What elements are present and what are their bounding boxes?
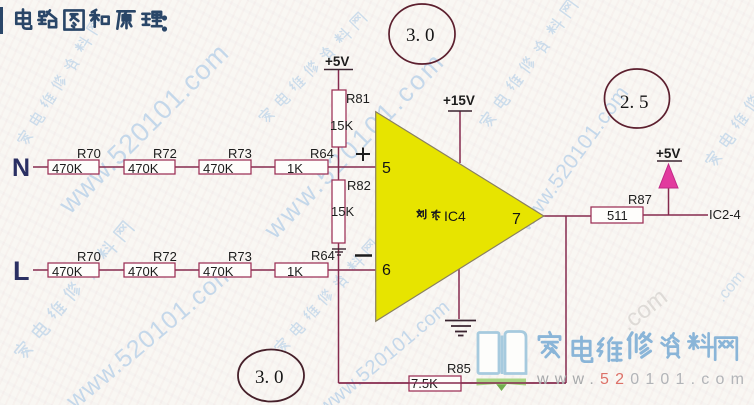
- svg-text:L: L: [13, 256, 30, 286]
- svg-text:R82: R82: [347, 178, 371, 193]
- wire +5V arrow to output net: [668, 188, 670, 215]
- wire +15V into op-amp: [459, 111, 461, 163]
- wire output junction down: [565, 216, 567, 383]
- svg-text:7: 7: [512, 211, 521, 228]
- svg-text:3. 0: 3. 0: [255, 367, 284, 388]
- resistor R82 value 15K: [331, 178, 371, 243]
- svg-text:470K: 470K: [203, 264, 234, 279]
- node marker 3.0 bottom: [238, 350, 304, 402]
- page title: [0, 7, 167, 34]
- power +15V: [443, 93, 475, 111]
- svg-text:R64: R64: [310, 146, 334, 161]
- resistor R81 value 15K: [330, 90, 370, 147]
- wire feedback bottom: [339, 382, 567, 384]
- wire R70-R72 row N: [99, 166, 124, 168]
- svg-text:www.520101.com: www.520101.com: [52, 37, 235, 220]
- svg-text:470K: 470K: [52, 264, 83, 279]
- svg-text:+5V: +5V: [325, 54, 349, 69]
- op-amp U IC4 triangle: [376, 112, 544, 322]
- resistor R64 row N value 1K: [275, 146, 334, 176]
- wire R72-R73 row L: [175, 269, 199, 271]
- wire +5V to R81: [338, 70, 340, 90]
- svg-text:R70: R70: [77, 146, 101, 161]
- op-amp label 刘东IC4: [417, 210, 440, 220]
- svg-text:R81: R81: [346, 91, 370, 106]
- svg-text:R87: R87: [628, 192, 652, 207]
- svg-text:511: 511: [607, 208, 628, 223]
- svg-text:R64: R64: [311, 248, 335, 263]
- resistor R70 row L: [48, 249, 101, 279]
- resistor R73 row L: [199, 249, 252, 279]
- ground below op-amp: [445, 321, 476, 336]
- power +5V rail top: [324, 54, 353, 70]
- svg-text:5: 5: [382, 160, 391, 177]
- wire R87 to IC2-4: [643, 214, 708, 216]
- resistor R73 row N: [199, 146, 252, 176]
- svg-text:470K: 470K: [203, 161, 234, 176]
- svg-text:15K: 15K: [331, 204, 354, 219]
- resistor R72 row N: [124, 146, 177, 176]
- svg-text:IC2-4: IC2-4: [709, 207, 741, 222]
- svg-text:R70: R70: [77, 249, 101, 264]
- svg-text:IC4: IC4: [444, 208, 466, 224]
- wire op-amp output: [543, 215, 591, 217]
- svg-text:R73: R73: [228, 249, 252, 264]
- wire R64 to op-amp pin6: [328, 269, 376, 271]
- wire R64 to op-amp pin5: [328, 166, 376, 168]
- svg-text:.com: .com: [713, 268, 748, 305]
- node marker 2.5: [605, 69, 670, 128]
- op-amp plus input sign: [356, 148, 370, 162]
- ground small at R82 bottom: [332, 249, 346, 255]
- svg-text:470K: 470K: [52, 161, 83, 176]
- svg-text:R72: R72: [153, 249, 177, 264]
- wire R70-R72 row L: [99, 269, 124, 271]
- svg-text:1K: 1K: [287, 264, 303, 279]
- svg-text:2. 5: 2. 5: [620, 92, 649, 113]
- site logo bottom right: [339, 332, 751, 392]
- svg-text:www.520101.com: www.520101.com: [536, 371, 750, 388]
- op-amp minus input sign: [355, 254, 372, 257]
- wire R82 down to feedback: [338, 243, 340, 383]
- wire R81 to node: [338, 147, 340, 180]
- svg-text:R72: R72: [153, 146, 177, 161]
- resistor R64 row L value 1K: [275, 248, 335, 279]
- svg-text:N: N: [12, 154, 30, 182]
- svg-text:6: 6: [382, 262, 391, 279]
- svg-text:+15V: +15V: [443, 93, 475, 108]
- resistor R70 row N: [48, 146, 101, 176]
- wire L to R70: [33, 269, 48, 271]
- wire R73-R64 row N: [251, 166, 275, 168]
- svg-text:1K: 1K: [287, 161, 303, 176]
- svg-text:470K: 470K: [128, 264, 159, 279]
- resistor R85 value 7.5K: [409, 361, 471, 391]
- svg-text:www.520101.com: www.520101.com: [60, 257, 241, 405]
- svg-text:470K: 470K: [128, 161, 159, 176]
- wire op-amp to ground: [458, 268, 460, 319]
- wire R72-R73 row N: [175, 166, 199, 168]
- power +5V arrow at output: [656, 146, 682, 188]
- resistor R72 row L: [124, 249, 177, 279]
- svg-text:R73: R73: [228, 146, 252, 161]
- svg-text:R85: R85: [447, 361, 471, 376]
- svg-text:.com: .com: [615, 283, 673, 336]
- wire R73-R64 row L: [251, 269, 275, 271]
- svg-text:+5V: +5V: [656, 146, 680, 161]
- svg-text:15K: 15K: [330, 118, 353, 133]
- node marker 3.0 top: [389, 4, 455, 64]
- wire N to R70: [33, 166, 48, 168]
- resistor R87 value 511: [591, 192, 652, 223]
- svg-text:3. 0: 3. 0: [406, 25, 435, 46]
